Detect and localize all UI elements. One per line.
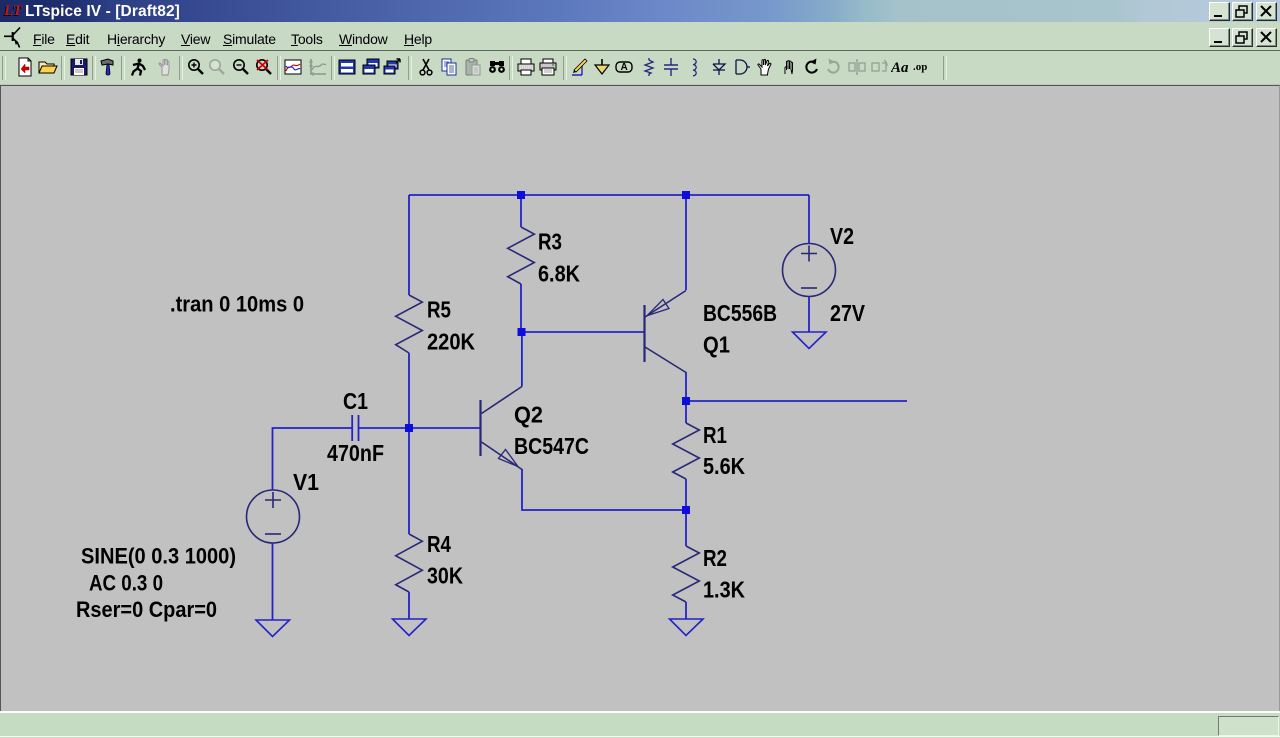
svg-text:V2: V2 <box>830 223 854 249</box>
wire node B to Q2 base <box>409 427 480 429</box>
spice directive .tran <box>170 292 304 317</box>
wire R5 bottom to node B <box>408 353 410 428</box>
svg-text:6.8K: 6.8K <box>538 261 580 287</box>
svg-text:SINE(0 0.3 1000): SINE(0 0.3 1000) <box>81 544 236 569</box>
svg-text:R2: R2 <box>703 545 727 571</box>
voltage source V1 <box>247 490 300 543</box>
ground under R4 <box>393 619 427 636</box>
wire node B down to R4 <box>408 428 410 534</box>
wire node E to R2 top <box>685 510 687 546</box>
resistor R5 <box>396 295 423 353</box>
junction node rail-R3 <box>517 191 525 199</box>
toolbar <box>0 51 1280 84</box>
ground under R2 <box>670 619 704 636</box>
ground under V1 <box>256 620 290 637</box>
svg-text:Aa: Aa <box>891 60 909 76</box>
wire Q2 collector up to node C <box>521 332 523 387</box>
label R2 <box>703 545 727 571</box>
svg-text:BC547C: BC547C <box>514 433 589 459</box>
wire C1 right to node B <box>359 427 410 429</box>
label R1 <box>703 422 727 448</box>
svg-text:AC 0.3 0: AC 0.3 0 <box>89 571 163 596</box>
value 27V <box>830 300 865 326</box>
wire top rail V+ <box>409 194 809 196</box>
value 1.3K <box>703 577 745 603</box>
value 220K <box>427 329 475 355</box>
svg-text:A: A <box>621 62 628 73</box>
label V2 <box>830 223 854 249</box>
value BC556B <box>703 300 777 326</box>
value BC547C <box>514 433 589 459</box>
voltage source V2 <box>783 244 836 297</box>
spice directive V1 SINE <box>76 544 236 623</box>
svg-text:.tran 0 10ms 0: .tran 0 10ms 0 <box>170 292 304 317</box>
junction node E <box>682 506 690 514</box>
svg-text:.op: .op <box>913 61 927 73</box>
wire node C to Q1 base <box>521 331 644 333</box>
value 5.6K <box>703 453 745 479</box>
svg-text:C1: C1 <box>343 388 368 414</box>
transistor Q1 (PNP) <box>645 291 687 373</box>
wire output line <box>686 400 907 402</box>
wire V2 top to rail <box>808 195 810 244</box>
junction node D output <box>682 397 690 405</box>
svg-text:27V: 27V <box>830 300 865 326</box>
junction node C <box>518 328 526 336</box>
svg-text:LT: LT <box>3 3 23 19</box>
status bar <box>0 711 1280 738</box>
resistor R2 <box>673 546 700 602</box>
svg-text:Q2: Q2 <box>514 402 543 428</box>
wire R3 top lead <box>520 195 522 227</box>
value 6.8K <box>538 261 580 287</box>
ground under V2 <box>793 332 827 349</box>
wire R1 bottom to node E <box>685 479 687 510</box>
title bar <box>0 0 1280 22</box>
wire R4 bottom to ground <box>408 592 410 619</box>
wire Q1 emitter up to top rail <box>685 195 687 290</box>
svg-text:BC556B: BC556B <box>703 300 777 326</box>
resistor R3 <box>508 227 535 284</box>
value 470nF <box>327 440 384 466</box>
wire R2 bottom to ground <box>685 602 687 619</box>
svg-text:R5: R5 <box>427 297 451 323</box>
wire Q2 emitter to node E <box>522 469 686 510</box>
svg-text:5.6K: 5.6K <box>703 453 745 479</box>
wire node D to R1 top <box>685 401 687 423</box>
svg-text:30K: 30K <box>427 563 463 589</box>
label R3 <box>538 229 562 255</box>
svg-text:R1: R1 <box>703 422 727 448</box>
svg-text:470nF: 470nF <box>327 440 384 466</box>
wire R3 bottom lead to node C <box>520 284 522 332</box>
label C1 <box>343 388 368 414</box>
capacitor C1 <box>352 415 358 441</box>
svg-text:R3: R3 <box>538 229 562 255</box>
svg-text:1.3K: 1.3K <box>703 577 745 603</box>
wire Q1 collector down to node D <box>685 372 687 401</box>
value 30K <box>427 563 463 589</box>
svg-text:Q1: Q1 <box>703 332 730 358</box>
wire left branch down to R5 <box>408 195 410 295</box>
junction node B <box>405 424 413 432</box>
label Q1 <box>703 332 730 358</box>
label R5 <box>427 297 451 323</box>
wire C1 left to V1 <box>273 428 353 490</box>
transistor Q2 (NPN) <box>481 387 523 470</box>
label R4 <box>427 531 451 557</box>
resistor R1 <box>673 423 700 479</box>
wire V1 bottom to ground <box>272 543 274 620</box>
svg-text:Rser=0 Cpar=0: Rser=0 Cpar=0 <box>76 597 217 622</box>
junction node rail-Q1 <box>682 191 690 199</box>
svg-text:V1: V1 <box>293 469 319 495</box>
label V1 <box>293 469 319 495</box>
label Q2 <box>514 402 543 428</box>
svg-text:R4: R4 <box>427 531 451 557</box>
resistor R4 <box>396 534 423 592</box>
svg-text:220K: 220K <box>427 329 475 355</box>
menu bar <box>0 22 1280 50</box>
wire V2 bottom to ground <box>808 297 810 333</box>
